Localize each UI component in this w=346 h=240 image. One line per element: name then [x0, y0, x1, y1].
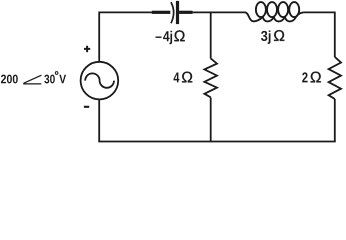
wire left vertical upper [98, 12, 100, 63]
capacitor C1 curved plate [171, 2, 174, 23]
source label 30 [44, 75, 55, 84]
wire bottom [98, 141, 335, 143]
wire top-left segment [99, 11, 152, 13]
inductor L1 bottom arc 1 [263, 17, 274, 22]
wire middle vertical upper [210, 12, 212, 58]
inductor L1 loop 2 [267, 2, 277, 17]
resistor R1 label omega [182, 72, 192, 83]
capacitor label omega [174, 30, 184, 41]
resistor R2 2 ohm zigzag [329, 57, 341, 99]
inductor L1 loop 4 [289, 2, 299, 17]
plus sign of source [84, 46, 90, 52]
inductor label 3j [261, 30, 270, 43]
degree symbol [55, 72, 58, 75]
wire middle vertical lower [210, 98, 212, 142]
voltage source V1 circle [81, 62, 119, 100]
inductor L1 bottom arc 3 [285, 17, 296, 22]
source label 200 [1, 75, 18, 84]
capacitor label 4j [163, 31, 172, 44]
inductor L1 exit swoop [296, 12, 303, 16]
capacitor C1 straight plate [176, 1, 179, 24]
inductor L1 loop 3 [278, 2, 288, 17]
voltage source V1 sine wave [85, 73, 114, 87]
resistor R2 label 2 [302, 72, 307, 82]
wire top right segment (inductor to corner) [303, 11, 335, 13]
resistor R1 label 4 [173, 72, 179, 82]
wire right vertical upper [334, 12, 336, 58]
capacitor label minus [156, 37, 162, 38]
wire right vertical lower [334, 99, 336, 142]
wire top mid segment (capacitor to inductor) [192, 11, 245, 13]
source label V [59, 75, 66, 84]
angle symbol [23, 75, 41, 84]
inductor L1 entry swoop [245, 12, 262, 21]
inductor L1 bottom arc 2 [274, 17, 285, 22]
inductor label omega [274, 30, 284, 41]
minus sign of source [84, 106, 89, 108]
inductor L1 loop 1 [256, 2, 266, 17]
resistor R1 4 ohm zigzag [204, 58, 217, 97]
resistor R2 label omega [311, 72, 321, 83]
wire left vertical lower [98, 99, 100, 141]
capacitor C1 left thick lead [152, 11, 171, 14]
capacitor C1 right thick lead [179, 11, 192, 14]
